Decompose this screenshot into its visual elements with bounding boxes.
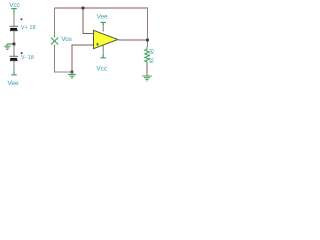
node label Vos	[61, 36, 72, 43]
node Vee label (left rail bottom)	[8, 80, 19, 87]
wire top rail horizontal (Vos node to output node)	[55, 7, 149, 9]
battery V1 polarity dot	[21, 18, 23, 20]
battery V2 polarity dot	[21, 52, 23, 54]
junction dot ground node	[71, 71, 74, 74]
svg-text:Vee: Vee	[8, 80, 19, 87]
svg-text:V+ 18: V+ 18	[21, 25, 36, 31]
op-amp output pin tick	[117, 39, 120, 41]
svg-text:2k: 2k	[148, 58, 154, 64]
battery V2 (V- 18) plates	[10, 56, 19, 60]
supply label Vee (above op-amp)	[97, 13, 108, 20]
power pin jumper T (Vcc, left)	[11, 9, 17, 12]
svg-text:Vos: Vos	[61, 36, 72, 43]
op-amp negative supply stub and pin tick (bottom)	[102, 45, 104, 57]
wire Vos drop vertical	[54, 8, 56, 36]
power pin jumper inverted-T (Vcc below op-amp)	[101, 55, 106, 58]
op-amp pin tick inverting input	[93, 33, 95, 35]
resistor RL zigzag	[145, 47, 149, 64]
svg-text:Vcc: Vcc	[9, 2, 20, 9]
power pin jumper T (Vee above op-amp)	[101, 22, 106, 25]
voltage pin X marker Vos	[51, 35, 58, 46]
wire battery V2 bottom to Vee pin	[13, 61, 15, 75]
svg-text:RL: RL	[148, 49, 154, 56]
node Vcc label (left rail top)	[9, 2, 20, 9]
svg-text:Vee: Vee	[97, 13, 108, 20]
battery V1 (V+ 18) plates	[10, 26, 19, 30]
wire battery V1 bottom to ground tap junction	[13, 31, 15, 56]
wire Vos bottom to ground node	[55, 47, 73, 72]
value label V- 18	[21, 55, 34, 61]
svg-text:Vcc: Vcc	[96, 66, 107, 73]
op-amp U1 body	[94, 30, 118, 48]
resistor labels RL 2k (rotated)	[148, 49, 154, 64]
wire ground tap (horizontal)	[7, 43, 14, 45]
junction dot feedback branch on top rail	[82, 7, 85, 10]
ground symbol GND3 (below RL)	[142, 76, 151, 81]
pin tick battery V2 top terminal	[13, 54, 15, 55]
supply label Vcc (below op-amp)	[96, 66, 107, 73]
power pin jumper inverted-T (Vee, left)	[11, 72, 17, 75]
wire op-amp output to load node	[119, 39, 148, 41]
op-amp positive supply stub and pin tick (top)	[102, 23, 104, 31]
wire feedback branch to inverting input	[83, 9, 94, 34]
ground symbol GND1 (left rail midpoint)	[4, 44, 10, 50]
pin tick battery V1 top terminal	[13, 12, 15, 13]
wire resistor bottom to ground	[146, 64, 148, 76]
junction dot output node	[146, 39, 149, 42]
value label V+ 18	[21, 25, 36, 31]
junction dot at battery midpoint node	[13, 43, 16, 46]
ground symbol GND2 (input ground)	[68, 72, 76, 78]
wire ground node to non-inverting input	[72, 45, 94, 72]
svg-text:V- 18: V- 18	[21, 55, 34, 61]
wire Vcc pin to battery V1 top	[13, 11, 15, 26]
wire right rail vertical (top rail corner down to resistor)	[147, 8, 149, 47]
op-amp plus mark (non-inverting input)	[96, 43, 99, 46]
